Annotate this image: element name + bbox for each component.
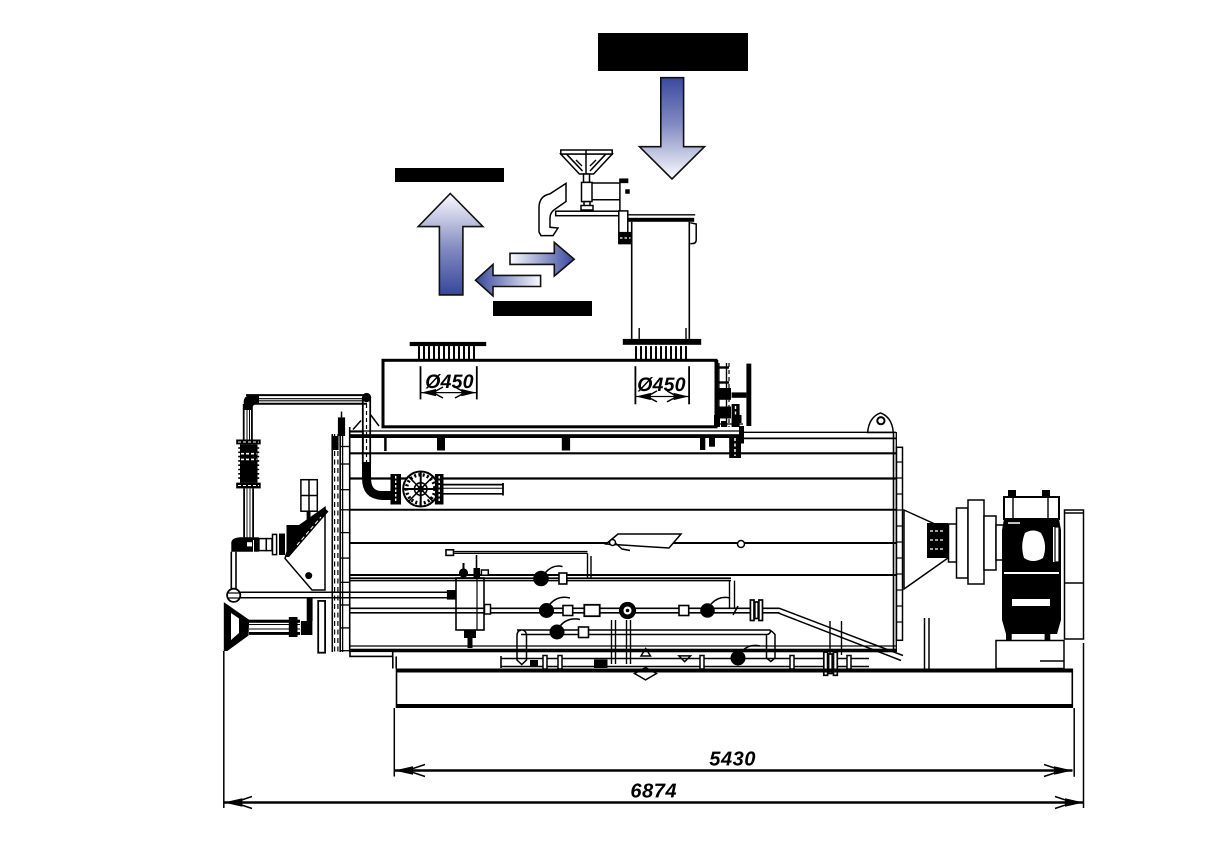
right downcomer xyxy=(830,621,842,655)
boiler shell outline xyxy=(343,424,897,652)
small stubs right of economizer xyxy=(700,436,741,458)
burner lance xyxy=(249,597,325,653)
front tube plate strip xyxy=(332,434,349,652)
valve V2c xyxy=(700,597,730,617)
burner motor block xyxy=(1002,490,1061,663)
fitting pipe2 small xyxy=(679,606,689,616)
feed pump elbow xyxy=(362,462,391,500)
economizer right valve stand xyxy=(717,360,746,427)
nozzle right flange (under chimney) xyxy=(623,328,701,360)
dim Ø450 left xyxy=(421,366,477,399)
small hatched column at shell front top xyxy=(331,412,379,450)
vertical pipe from valve row down to ball xyxy=(231,552,236,589)
rear cone xyxy=(904,510,948,589)
blowdown pipe 3 xyxy=(517,630,775,665)
long gauge pipe to water column xyxy=(240,590,455,600)
ladder feet xyxy=(714,415,720,427)
front valve row xyxy=(231,534,284,555)
water column box xyxy=(456,578,484,630)
valve V1 on pipe 1 xyxy=(533,566,567,586)
chimney xyxy=(628,215,696,339)
feed pump xyxy=(391,472,444,507)
valve mounting plate xyxy=(556,211,621,216)
feed pump riser pipe xyxy=(363,397,370,464)
front saddle base plate xyxy=(350,651,393,656)
valve outlet pipe to chimney xyxy=(592,179,629,211)
blowdown pipe 1 xyxy=(350,578,735,608)
burner pedestal xyxy=(996,641,1064,669)
davit triangle xyxy=(224,602,249,651)
label box top (redacted) xyxy=(598,33,748,71)
water column drain xyxy=(464,630,476,648)
cone hatched block xyxy=(927,523,948,558)
valve handle bar right of economizer xyxy=(746,364,751,426)
discharge elbow duct xyxy=(539,183,566,235)
valve V2a xyxy=(539,597,573,618)
central downcomers xyxy=(612,620,631,664)
label box left (redacted) xyxy=(395,168,504,182)
arrow up (steam out) xyxy=(418,194,483,295)
label box mid (redacted) xyxy=(493,301,592,316)
davit arm (black) xyxy=(287,509,329,558)
union fitting pipe2 xyxy=(584,605,599,616)
gauge ball valve xyxy=(227,589,240,602)
base frame xyxy=(396,669,1072,709)
manhole pad (parallelogram) xyxy=(606,534,745,548)
shell top support tabs xyxy=(437,438,445,451)
front riser pipe (left, to bellows) xyxy=(244,404,252,440)
bottom manifold xyxy=(501,645,869,679)
water column top fittings xyxy=(446,544,630,579)
pipe2 end flange rings xyxy=(750,600,762,621)
valve V2b (round) xyxy=(619,602,636,619)
pipe2 slash xyxy=(733,606,738,615)
diagonal brace pipe xyxy=(778,608,903,660)
burner support column xyxy=(1065,510,1084,639)
burner flange rings xyxy=(949,500,1005,584)
rear support under cone xyxy=(924,618,926,669)
pump discharge pipe xyxy=(444,483,504,496)
arrow down (flue gas in) xyxy=(640,78,705,179)
lifting lug xyxy=(868,413,894,433)
arrow right xyxy=(510,242,574,276)
dim 6874 xyxy=(224,643,1084,809)
dim 5430 xyxy=(394,708,1074,777)
chimney left bracket xyxy=(619,211,632,244)
2x2 sight box xyxy=(301,480,317,512)
blowdown pipe 2 xyxy=(350,608,780,613)
rear tube plate bracket xyxy=(897,447,903,640)
nozzle left flange xyxy=(410,342,487,360)
pipe below bellows xyxy=(244,488,253,540)
safety valve funnel xyxy=(561,150,612,174)
expansion bellows xyxy=(236,440,261,489)
safety valve body xyxy=(581,174,593,210)
economizer box xyxy=(383,360,716,427)
front top feed pipe xyxy=(244,393,372,410)
dim Ø450 right xyxy=(635,366,689,404)
valve V3 xyxy=(550,619,589,640)
arrow left xyxy=(476,264,541,296)
gusset plate (white) xyxy=(285,508,325,591)
hatched flange left of arm xyxy=(279,534,285,555)
